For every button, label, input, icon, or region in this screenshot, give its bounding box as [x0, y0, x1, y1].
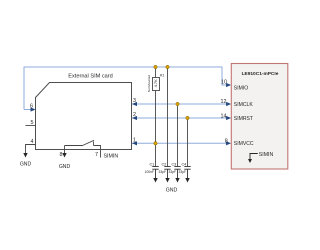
wire SIMCLK net: card pin 3 to mPCIe pin 12: [132, 103, 229, 105]
svg-text:33pF: 33pF: [168, 170, 176, 174]
pin 5 stub (unconnected): [26, 125, 36, 127]
svg-text:External SIM card: External SIM card: [68, 73, 112, 79]
svg-text:14: 14: [221, 113, 227, 119]
wire SIMIO net: card pin 6 to mPCIe pin 10: [24, 67, 229, 110]
svg-text:SIMIN: SIMIN: [104, 153, 119, 159]
External SIM card body outline: [36, 83, 132, 150]
wire SIMCLK to capacitor C3: [177, 104, 179, 167]
ground arrow of C3: [175, 178, 179, 183]
module U1 LE910C1-mPCIe box: [231, 64, 287, 170]
svg-text:4: 4: [31, 139, 34, 145]
svg-text:SIMIO: SIMIO: [234, 86, 248, 92]
net label SIMIN inside module with arrow: [250, 154, 258, 160]
svg-text:8: 8: [225, 138, 228, 144]
svg-text:33pF: 33pF: [158, 170, 166, 174]
junction dot on SIMRST wire at C4: [186, 116, 189, 119]
svg-text:100nF: 100nF: [145, 170, 154, 174]
svg-text:R1: R1: [160, 74, 164, 78]
SIM presence switch SW (pins 8-7): [65, 145, 83, 147]
svg-text:12: 12: [221, 99, 227, 105]
svg-text:4.7K: 4.7K: [153, 79, 158, 88]
junction dot on SIMVCC wire at C1: [154, 142, 157, 145]
svg-text:GND: GND: [20, 162, 32, 168]
capacitor C2: [164, 167, 170, 179]
svg-text:C1: C1: [149, 162, 154, 166]
svg-text:C3: C3: [171, 162, 176, 166]
svg-text:SIMIN: SIMIN: [259, 152, 274, 158]
svg-text:1: 1: [133, 137, 136, 143]
svg-text:SIMVCC: SIMVCC: [234, 141, 254, 147]
capacitor C1: [152, 167, 158, 179]
wire SIMVCC net: card pin 1 to mPCIe pin 8: [132, 142, 229, 144]
svg-text:8: 8: [60, 152, 63, 158]
svg-text:33pF: 33pF: [178, 170, 186, 174]
svg-text:Not Mounted: Not Mounted: [147, 75, 151, 93]
svg-text:5: 5: [31, 120, 34, 126]
svg-text:C4: C4: [181, 162, 186, 166]
wire SIMIO to capacitor C2: [167, 67, 169, 167]
svg-text:GND: GND: [59, 164, 71, 170]
wire SIMRST to capacitor C4: [187, 118, 189, 167]
svg-text:2: 2: [133, 112, 136, 118]
svg-text:10: 10: [221, 80, 227, 86]
junction dot on SIMCLK wire at C3: [176, 102, 179, 105]
ground arrow of C4: [185, 178, 189, 183]
wire SIMRST net: card pin 2 to mPCIe pin 14: [132, 117, 229, 119]
resistor R1: [153, 78, 160, 91]
svg-text:C2: C2: [161, 162, 166, 166]
wire switch pin 8 to ground: [64, 146, 66, 154]
svg-text:6: 6: [30, 103, 33, 109]
junction dot on SIMIO wire at R1: [154, 65, 157, 68]
pin 4 wire to ground: [26, 145, 36, 154]
svg-text:SIMRST: SIMRST: [234, 116, 253, 122]
svg-text:LE910C1-mPCIe: LE910C1-mPCIe: [242, 71, 279, 77]
ground symbol at switch pin 8: [62, 153, 66, 158]
ground arrow of C2: [165, 178, 169, 183]
junction dot on SIMIO wire at C2: [166, 65, 169, 68]
svg-text:SIMCLK: SIMCLK: [234, 102, 254, 108]
wire R1/C1 vertical: SIMIO node down to R1: [155, 67, 157, 78]
svg-text:7: 7: [95, 152, 98, 158]
svg-text:GND: GND: [166, 187, 178, 193]
ground arrow of C1: [153, 178, 157, 183]
capacitor C3: [174, 167, 180, 179]
wire R1 bottom to SIMVCC wire and capacitor C1: [155, 91, 157, 167]
svg-text:3: 3: [133, 98, 136, 104]
ground symbol at pin 4: [23, 153, 27, 158]
capacitor C4: [184, 167, 190, 179]
